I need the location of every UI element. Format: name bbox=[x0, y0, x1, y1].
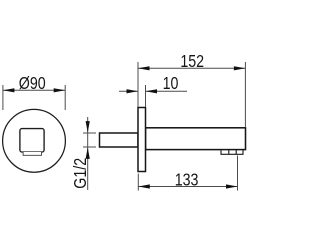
dimension 10: dimension line right leader bbox=[146, 90, 188, 92]
dimension 133: left arrow bbox=[138, 184, 150, 188]
front view: wall escutcheon circle bbox=[3, 109, 66, 172]
dimension 152: right arrow bbox=[234, 66, 246, 70]
dimension 133: extension line right (below aerator) bbox=[237, 156, 239, 191]
dimension 152: extension line left bbox=[137, 62, 139, 107]
dimension 152: left arrow bbox=[138, 66, 150, 70]
svg-text:10: 10 bbox=[163, 73, 179, 93]
svg-text:152: 152 bbox=[180, 51, 204, 71]
side view: spout body bbox=[146, 128, 246, 150]
dimension 133: extension line left (below flange) bbox=[137, 174, 139, 191]
side view: G1/2 threaded inlet stub bbox=[100, 133, 139, 147]
dimension Ø90: dimension line bbox=[3, 89, 65, 91]
svg-text:Ø90: Ø90 bbox=[19, 73, 46, 93]
dimension G1/2: extension line bottom bbox=[83, 146, 96, 148]
dimension G1/2: bottom arrow pointing up bbox=[86, 147, 90, 159]
svg-text:G1/2: G1/2 bbox=[71, 158, 91, 189]
dimension 10: right arrow pointing left bbox=[146, 89, 158, 93]
side view: wall flange bbox=[138, 108, 146, 172]
front view: square spout body bbox=[20, 129, 44, 152]
front view: spout outlet foot bbox=[23, 152, 41, 155]
svg-text:133: 133 bbox=[175, 170, 199, 190]
dimension 133: right arrow bbox=[226, 184, 238, 188]
dimension G1/2: extension line top bbox=[83, 132, 96, 134]
dimension G1/2: dimension line vertical bbox=[87, 117, 89, 190]
dimension 133: dimension line bbox=[138, 186, 237, 188]
dimension 152: dimension line bbox=[138, 67, 245, 69]
dimension Ø90: left arrow bbox=[3, 88, 15, 92]
dimension Ø90: right arrow bbox=[54, 88, 65, 92]
side view: aerator outlet bbox=[221, 150, 243, 155]
dimension G1/2: top arrow pointing down bbox=[86, 121, 90, 133]
dimension 152: extension line right bbox=[244, 62, 246, 128]
dimension 10: left arrow pointing right bbox=[127, 89, 139, 93]
dimension Ø90: extension line right bbox=[64, 85, 66, 110]
dimension 10: extension line right face bbox=[145, 85, 147, 107]
dimension 10: dimension line left tail bbox=[119, 90, 138, 92]
dimension Ø90: extension line left bbox=[2, 85, 4, 110]
